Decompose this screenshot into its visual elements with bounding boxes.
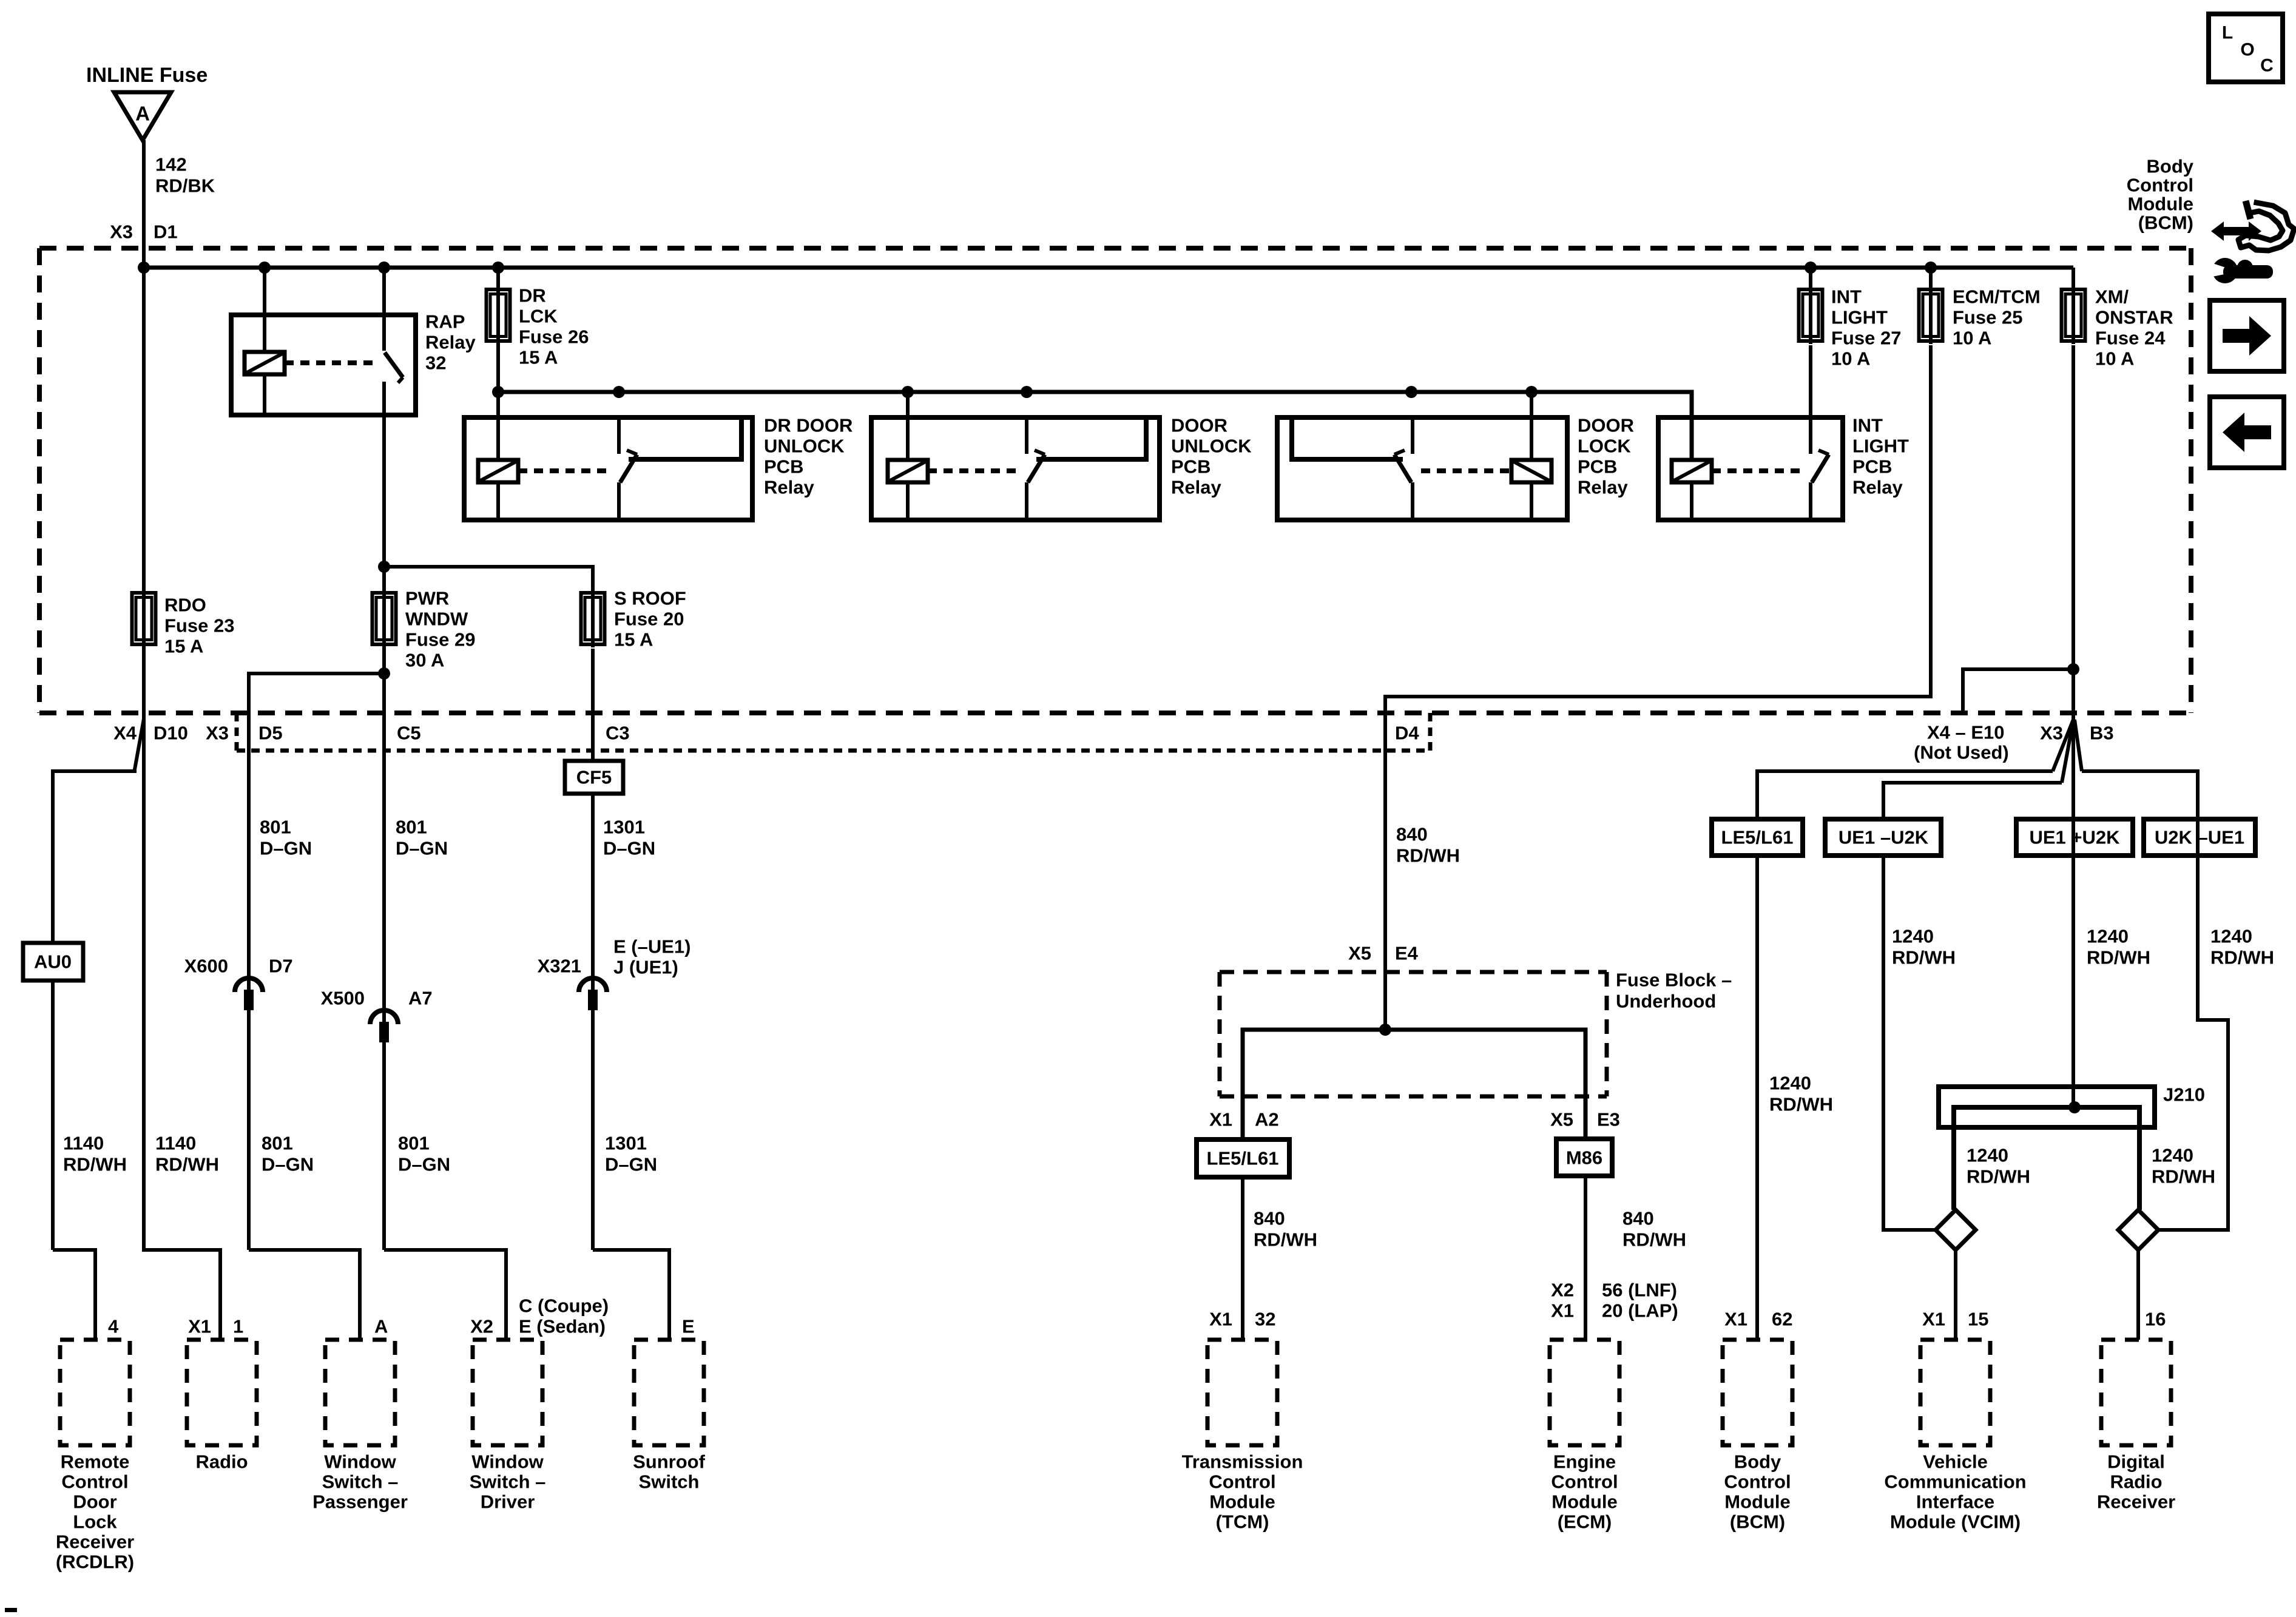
wire jog window passenger (249, 1250, 360, 1340)
svg-text:D–GN: D–GN (262, 1154, 314, 1175)
svg-text:Control: Control (1724, 1471, 1791, 1493)
fuse PWR WNDW Fuse 29 (373, 590, 396, 647)
connector X321 (579, 978, 607, 992)
svg-text:1301: 1301 (603, 817, 645, 838)
relay RAP Relay 32 (231, 268, 416, 567)
node bus2-r2coil (902, 386, 914, 398)
svg-text:Body: Body (1734, 1451, 1781, 1473)
svg-text:D–GN: D–GN (260, 838, 312, 859)
svg-text:X321: X321 (538, 956, 581, 977)
svg-text:UNLOCK: UNLOCK (1171, 436, 1252, 457)
svg-text:Switch –: Switch – (322, 1471, 399, 1493)
svg-text:X5: X5 (1348, 943, 1371, 964)
svg-text:Module: Module (2128, 194, 2194, 215)
relay DR DOOR UNLOCK PCB Relay (464, 392, 752, 520)
svg-text:RD/WH: RD/WH (1892, 947, 1956, 968)
svg-text:ONSTAR: ONSTAR (2095, 307, 2173, 328)
connector Window Switch - Passenger (325, 1340, 395, 1445)
node C5/D5 branch (378, 667, 390, 680)
svg-text:DOOR: DOOR (1578, 415, 1634, 436)
svg-text:X500: X500 (321, 988, 365, 1009)
wire relay feed bus2 (498, 392, 1692, 460)
svg-text:1240: 1240 (1769, 1073, 1811, 1094)
wire radio down + jog (144, 716, 220, 1340)
svg-text:PCB: PCB (1852, 456, 1892, 478)
node bus1-RAP switch (378, 262, 390, 274)
svg-text:LOCK: LOCK (1578, 436, 1631, 457)
svg-text:D10: D10 (154, 723, 188, 744)
svg-text:15: 15 (1968, 1309, 1988, 1330)
svg-text:Fuse 29: Fuse 29 (405, 629, 475, 650)
svg-text:RD/WH: RD/WH (1967, 1166, 2030, 1187)
svg-text:RDO: RDO (164, 595, 206, 616)
svg-text:X3: X3 (2040, 723, 2063, 744)
svg-text:142: 142 (155, 154, 187, 175)
node bus2-r3coil (1525, 386, 1538, 398)
svg-text:32: 32 (425, 353, 446, 374)
svg-text:X1: X1 (1922, 1309, 1945, 1330)
wire VCIM drop (1954, 1250, 1957, 1340)
svg-text:(Not Used): (Not Used) (1914, 742, 2009, 763)
svg-text:PCB: PCB (1171, 456, 1210, 478)
svg-text:801: 801 (398, 1133, 430, 1154)
fuse ECM/TCM Fuse 25 (1919, 286, 1943, 344)
svg-text:RD/WH: RD/WH (1769, 1094, 1833, 1115)
wire CF5 down (591, 794, 595, 1250)
svg-text:Underhood: Underhood (1616, 991, 1716, 1012)
svg-text:1301: 1301 (605, 1133, 647, 1154)
svg-text:UNLOCK: UNLOCK (764, 436, 845, 457)
svg-text:1240: 1240 (2210, 926, 2252, 947)
wire U2K-UE1 to splice (2158, 856, 2228, 1230)
svg-text:RD/WH: RD/WH (2152, 1166, 2215, 1187)
wire E4 into block (1383, 972, 1387, 1030)
wire TCM drop (1241, 1177, 1244, 1340)
fuse DR LCK Fuse 26 (487, 286, 510, 344)
svg-text:O: O (2240, 40, 2254, 60)
svg-text:801: 801 (262, 1133, 293, 1154)
connector Body Control Module (BCM) (1723, 1340, 1792, 1445)
svg-text:801: 801 (396, 817, 427, 838)
svg-text:801: 801 (260, 817, 291, 838)
svg-text:X3: X3 (110, 221, 133, 243)
svg-text:(TCM): (TCM) (1216, 1511, 1269, 1533)
svg-text:RD/WH: RD/WH (2087, 947, 2150, 968)
option box AU0 (23, 943, 83, 981)
svg-text:INLINE Fuse: INLINE Fuse (86, 64, 208, 87)
svg-text:10 A: 10 A (1953, 328, 1991, 349)
wire BCM 62 drop (1755, 856, 1759, 1340)
svg-text:DOOR: DOOR (1171, 415, 1227, 436)
fuse block underhood dashed box (1220, 972, 1607, 1096)
svg-text:D–GN: D–GN (603, 838, 655, 859)
svg-text:56 (LNF): 56 (LNF) (1602, 1280, 1677, 1301)
relay DOOR UNLOCK PCB Relay (871, 392, 1160, 520)
wire RDO fuse drop (142 line) (142, 268, 146, 716)
svg-text:D–GN: D–GN (396, 838, 448, 859)
svg-text:1240: 1240 (1892, 926, 1934, 947)
node bus1-142 (138, 262, 150, 274)
svg-text:X1: X1 (1209, 1309, 1232, 1330)
svg-text:Receiver: Receiver (2097, 1491, 2175, 1513)
svg-text:A: A (374, 1316, 388, 1337)
svg-text:15 A: 15 A (519, 347, 558, 368)
svg-text:Fuse 26: Fuse 26 (519, 326, 589, 348)
wire B3 fan diag left (2053, 720, 2073, 771)
svg-text:10 A: 10 A (2095, 348, 2134, 370)
node PWR branch (378, 561, 390, 573)
svg-text:(RCDLR): (RCDLR) (56, 1551, 134, 1573)
svg-text:20 (LAP): 20 (LAP) (1602, 1300, 1678, 1322)
svg-text:1140: 1140 (155, 1133, 196, 1154)
svg-text:INT: INT (1852, 415, 1883, 436)
svg-text:Engine: Engine (1553, 1451, 1616, 1473)
icon arrow left box (2210, 397, 2284, 468)
svg-text:A7: A7 (408, 988, 433, 1009)
option box UE1 -U2K (1825, 819, 1941, 856)
wire D5 branch (249, 673, 384, 751)
svg-text:C5: C5 (397, 723, 421, 744)
svg-text:INT: INT (1831, 286, 1862, 308)
svg-text:1140: 1140 (63, 1133, 104, 1154)
svg-text:C: C (2260, 56, 2274, 76)
node bus2-r3switch (1405, 386, 1417, 398)
svg-text:RD/WH: RD/WH (1622, 1229, 1686, 1251)
connector Digital Radio Receiver (2101, 1340, 2171, 1445)
node bus1-INTLIGHT (1805, 262, 1817, 274)
svg-text:X1: X1 (1724, 1309, 1747, 1330)
svg-text:LE5/L61: LE5/L61 (1207, 1148, 1279, 1169)
svg-text:Window: Window (471, 1451, 544, 1473)
wire S ROOF branch (384, 567, 593, 591)
svg-text:Passenger: Passenger (312, 1491, 408, 1513)
svg-text:E (–UE1): E (–UE1) (613, 936, 690, 957)
svg-text:Remote: Remote (61, 1451, 130, 1473)
svg-text:Digital: Digital (2107, 1451, 2165, 1473)
svg-text:D7: D7 (269, 956, 293, 977)
artifact mark (5, 1608, 17, 1612)
svg-text:A2: A2 (1255, 1109, 1279, 1130)
svg-text:M86: M86 (1566, 1147, 1602, 1169)
svg-text:Control: Control (2127, 175, 2193, 196)
wire jog window driver (384, 1250, 506, 1340)
wire fuse block bus (1243, 1030, 1585, 1139)
node bus1-DRLCK (492, 262, 504, 274)
relay INT LIGHT PCB Relay (1658, 345, 1843, 520)
svg-text:Relay: Relay (1171, 477, 1221, 498)
svg-text:E: E (682, 1316, 695, 1337)
icon hand with double arrow and wrench (2209, 201, 2294, 283)
svg-text:Switch –: Switch – (470, 1471, 546, 1493)
svg-text:Module: Module (1724, 1491, 1791, 1513)
node bus1-RAP coil (258, 262, 271, 274)
svg-text:Receiver: Receiver (56, 1531, 134, 1553)
svg-text:Interface: Interface (1916, 1491, 1994, 1513)
svg-text:LE5/L61: LE5/L61 (1721, 827, 1794, 848)
svg-text:840: 840 (1254, 1208, 1285, 1229)
wire B3 fan horizontal 2 (1883, 783, 2062, 819)
wire X4-E10 stub (1963, 669, 2073, 713)
svg-text:Relay: Relay (1852, 477, 1903, 498)
svg-text:RD/BK: RD/BK (155, 175, 215, 197)
wire RCDLR branch kink (53, 719, 144, 943)
wire AU0 down (51, 981, 55, 1250)
splice diamond (DRR) (2118, 1210, 2158, 1250)
svg-text:D–GN: D–GN (398, 1154, 450, 1175)
node J210 (2068, 1101, 2081, 1113)
svg-text:1240: 1240 (1967, 1145, 2008, 1166)
svg-text:Fuse Block –: Fuse Block – (1616, 970, 1732, 991)
svg-text:Module (VCIM): Module (VCIM) (1890, 1511, 2021, 1533)
inline fuse triangle A (114, 92, 171, 140)
svg-text:Relay: Relay (764, 477, 814, 498)
svg-text:(ECM): (ECM) (1558, 1511, 1612, 1533)
wire XM/ONSTAR fuse down to B3 (2071, 345, 2075, 1107)
svg-text:RAP: RAP (425, 311, 465, 333)
svg-text:X3: X3 (206, 723, 229, 744)
svg-text:840: 840 (1622, 1208, 1654, 1229)
svg-text:15 A: 15 A (614, 629, 653, 650)
option box UE1 +U2K (2016, 819, 2133, 856)
wire UE1-U2K to splice (1883, 856, 1936, 1230)
connector X600 D7 (235, 978, 263, 992)
svg-text:A: A (135, 103, 150, 125)
svg-text:62: 62 (1772, 1309, 1792, 1330)
connector Transmission Control Module (TCM) (1207, 1340, 1277, 1445)
svg-text:LIGHT: LIGHT (1852, 436, 1909, 457)
svg-text:LIGHT: LIGHT (1831, 307, 1888, 328)
svg-text:PCB: PCB (1578, 456, 1617, 478)
node bus2-DRLCK (492, 386, 504, 398)
wire jog RCDLR (53, 1250, 95, 1340)
svg-text:16: 16 (2145, 1309, 2166, 1330)
svg-text:Relay: Relay (425, 332, 476, 353)
svg-text:X1: X1 (1551, 1300, 1574, 1322)
svg-text:S ROOF: S ROOF (614, 588, 686, 609)
svg-text:Lock: Lock (73, 1511, 117, 1533)
wire ECM/TCM fuse drop (1929, 268, 1933, 288)
svg-text:Control: Control (1551, 1471, 1618, 1493)
svg-text:PCB: PCB (764, 456, 803, 478)
svg-text:X4 – E10: X4 – E10 (1927, 722, 2005, 743)
svg-text:DR DOOR: DR DOOR (764, 415, 853, 436)
connector Engine Control Module (ECM) (1550, 1340, 1619, 1445)
svg-text:X600: X600 (184, 956, 228, 977)
svg-text:Communication: Communication (1884, 1471, 2026, 1493)
svg-text:Vehicle: Vehicle (1923, 1451, 1988, 1473)
svg-text:DR: DR (519, 285, 546, 306)
option box CF5 (565, 761, 623, 794)
wire XM/ONSTAR fuse drop (2071, 268, 2075, 288)
connector X500 A7 (370, 1010, 398, 1024)
svg-text:X1: X1 (188, 1316, 211, 1337)
wire PWR WNDW drop (382, 567, 386, 673)
icon LOC box (2209, 14, 2283, 82)
svg-text:(BCM): (BCM) (1730, 1511, 1785, 1533)
fuse S ROOF Fuse 20 (581, 590, 605, 647)
svg-text:CF5: CF5 (576, 767, 612, 788)
svg-text:Door: Door (73, 1491, 116, 1513)
svg-text:D1: D1 (154, 221, 178, 243)
svg-text:L: L (2222, 23, 2233, 43)
node fuse block (1379, 1024, 1391, 1036)
option box M86 (1556, 1139, 1612, 1176)
svg-text:WNDW: WNDW (405, 609, 468, 630)
icon arrow right box (2210, 300, 2284, 371)
svg-text:ECM/TCM: ECM/TCM (1953, 286, 2041, 308)
wire B3 fan diag mid (2062, 720, 2073, 783)
svg-text:RD/WH: RD/WH (1254, 1229, 1317, 1251)
svg-text:10 A: 10 A (1831, 348, 1870, 370)
svg-text:LCK: LCK (519, 306, 558, 327)
svg-text:PWR: PWR (405, 588, 449, 609)
wire DRLCK fuse drop (496, 268, 500, 392)
wire DRR drop (2136, 1250, 2140, 1340)
svg-text:Radio: Radio (195, 1451, 248, 1473)
wire 142 RD/BK (142, 140, 146, 268)
svg-text:D–GN: D–GN (605, 1154, 657, 1175)
connector X3 pass-through dashed strip (237, 713, 1430, 751)
svg-text:Fuse 25: Fuse 25 (1953, 307, 2022, 328)
svg-text:B3: B3 (2090, 723, 2114, 744)
svg-text:RD/WH: RD/WH (63, 1154, 127, 1175)
svg-text:C3: C3 (606, 723, 630, 744)
connector Window Switch - Driver (473, 1340, 542, 1445)
svg-text:XM/: XM/ (2095, 286, 2129, 308)
wire B3 fan horizontal 1 (1757, 771, 2053, 819)
splice diamond (VCIM) (1936, 1210, 1976, 1250)
svg-text:C (Coupe): C (Coupe) (519, 1295, 609, 1317)
svg-text:E3: E3 (1597, 1109, 1620, 1130)
svg-text:RD/WH: RD/WH (2210, 947, 2274, 968)
svg-text:Control: Control (1209, 1471, 1275, 1493)
svg-text:Module: Module (1209, 1491, 1275, 1513)
svg-text:U2K –UE1: U2K –UE1 (2155, 827, 2244, 848)
svg-text:J210: J210 (2163, 1084, 2205, 1106)
node bus1-ECMTCM (1925, 262, 1937, 274)
svg-text:1240: 1240 (2152, 1145, 2193, 1166)
svg-text:Driver: Driver (481, 1491, 535, 1513)
svg-text:15 A: 15 A (164, 636, 203, 657)
svg-text:(BCM): (BCM) (2138, 212, 2193, 234)
svg-text:Sunroof: Sunroof (633, 1451, 705, 1473)
wire C5 down (382, 673, 386, 1250)
svg-text:UE1 +U2K: UE1 +U2K (2029, 827, 2120, 848)
relay DOOR LOCK PCB Relay (1277, 392, 1567, 520)
svg-text:RD/WH: RD/WH (1396, 845, 1460, 866)
node bus2-r2switch (1021, 386, 1033, 398)
connector Radio (187, 1340, 257, 1445)
wire INT LIGHT fuse drop (1809, 268, 1812, 288)
svg-text:Relay: Relay (1578, 477, 1628, 498)
svg-text:RD/WH: RD/WH (155, 1154, 219, 1175)
svg-text:E (Sedan): E (Sedan) (519, 1316, 606, 1337)
wire B3 fan diag right (2075, 720, 2082, 771)
wire main feed bus (144, 266, 2073, 270)
svg-text:1240: 1240 (2087, 926, 2129, 947)
svg-text:X2: X2 (470, 1316, 493, 1337)
BCM dashed border box (39, 248, 2191, 713)
fuse RDO Fuse 23 (132, 590, 156, 647)
junction block J210 (1939, 1087, 2155, 1210)
svg-text:1: 1 (233, 1316, 243, 1337)
fuse INT LIGHT Fuse 27 (1799, 286, 1823, 344)
wire jog sunroof (593, 1250, 669, 1340)
wire D5 down (247, 751, 251, 1250)
svg-text:X1: X1 (1209, 1109, 1232, 1130)
svg-text:840: 840 (1396, 824, 1428, 845)
svg-text:D4: D4 (1395, 723, 1419, 744)
svg-text:32: 32 (1255, 1309, 1275, 1330)
connector Remote Control Door Lock Receiver (RCDLR) (60, 1340, 130, 1445)
option box U2K -UE1 (2144, 819, 2255, 856)
node onstar stub (2067, 663, 2079, 675)
svg-text:J (UE1): J (UE1) (613, 957, 678, 978)
svg-text:Control: Control (61, 1471, 128, 1493)
svg-text:X5: X5 (1550, 1109, 1573, 1130)
node bus2-r1switch (613, 386, 625, 398)
fuse XM/ONSTAR Fuse 24 (2062, 286, 2085, 344)
svg-text:E4: E4 (1395, 943, 1419, 964)
svg-text:Fuse 20: Fuse 20 (614, 609, 684, 630)
wire ECM/TCM fuse to D4 (1385, 345, 1931, 972)
option box LE5/L61 (right) (1712, 819, 1803, 856)
svg-text:X4: X4 (113, 723, 137, 744)
svg-text:4: 4 (108, 1316, 119, 1337)
svg-text:Module: Module (1551, 1491, 1618, 1513)
svg-text:Window: Window (324, 1451, 396, 1473)
svg-text:Fuse 23: Fuse 23 (164, 615, 234, 636)
svg-text:Fuse 24: Fuse 24 (2095, 328, 2166, 349)
wire C3 down (591, 649, 595, 761)
option box LE5/L61 (fuse block) (1197, 1139, 1289, 1177)
svg-text:Radio: Radio (2110, 1471, 2162, 1493)
svg-text:Switch: Switch (639, 1471, 700, 1493)
svg-text:AU0: AU0 (34, 951, 72, 973)
svg-text:UE1 –U2K: UE1 –U2K (1838, 827, 1929, 848)
connector Sunroof Switch (634, 1340, 704, 1445)
svg-text:D5: D5 (258, 723, 283, 744)
svg-text:Body: Body (2147, 156, 2194, 177)
connector Vehicle Communication Interface Module (VCIM) (1920, 1340, 1990, 1445)
svg-text:X2: X2 (1551, 1280, 1574, 1301)
svg-text:30 A: 30 A (405, 650, 444, 671)
svg-text:Transmission: Transmission (1182, 1451, 1303, 1473)
wire ECM drop (1584, 1176, 1587, 1340)
svg-text:Fuse 27: Fuse 27 (1831, 328, 1901, 349)
